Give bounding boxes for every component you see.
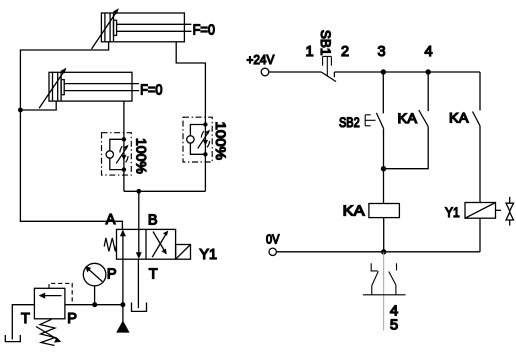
terminal 0V bbox=[269, 248, 276, 255]
junction node SB2/KA1 bbox=[381, 166, 386, 171]
contact map baseline bbox=[363, 294, 406, 296]
relay coil KA bbox=[369, 204, 400, 218]
cylinder CYL1 (top, with adjustable cushioning) bbox=[92, 8, 192, 49]
wire valve P port down to pump node bbox=[122, 259, 124, 305]
solenoid coil Y1 bbox=[465, 203, 496, 219]
junction node at pump column bbox=[120, 302, 125, 307]
svg-text:F=0: F=0 bbox=[193, 22, 215, 38]
wire manifold joining FC1, FC2 outputs to valve port B bbox=[124, 190, 205, 192]
svg-text:100%: 100% bbox=[213, 122, 229, 161]
svg-text:KA: KA bbox=[398, 111, 418, 126]
wire relay coil to 0V rail bbox=[383, 218, 385, 252]
svg-text:SB2: SB2 bbox=[339, 115, 360, 130]
svg-text:0V: 0V bbox=[266, 232, 280, 247]
contact map: NC contact symbol bbox=[371, 263, 378, 294]
svg-text:3: 3 bbox=[377, 44, 385, 60]
wire junction to relay coil bbox=[383, 169, 385, 204]
wire CYL1 cap port to left rail and down to valve port A bbox=[20, 42, 122, 230]
flow control valve FC1 (left, one-way throttle) bbox=[102, 133, 132, 175]
wire +24V rail (right of SB1) bbox=[334, 71, 480, 73]
wire +24V rail (left of SB1) bbox=[269, 71, 321, 73]
wire CYL2 cap port to left rail bbox=[20, 101, 56, 110]
directional valve DV1 (4/2 solenoid, spring return) bbox=[104, 229, 190, 259]
terminal +24V bbox=[261, 68, 269, 76]
junction node at gauge stem bbox=[92, 302, 97, 307]
pressure line manifold (relief valve to pump node) bbox=[65, 304, 123, 306]
tank under valve T bbox=[132, 303, 147, 312]
flow control valve FC2 (right, one-way throttle) bbox=[183, 117, 212, 162]
svg-text:1: 1 bbox=[305, 44, 313, 60]
relief valve RV1 bbox=[34, 283, 72, 345]
svg-text:+24V: +24V bbox=[247, 52, 275, 67]
svg-text:Y1: Y1 bbox=[199, 247, 217, 263]
pushbutton SB1 (NC) bbox=[321, 56, 336, 81]
svg-text:T: T bbox=[149, 267, 158, 283]
svg-text:P: P bbox=[67, 311, 77, 327]
wire 0V rail bbox=[276, 251, 480, 253]
wire valve port B drop bbox=[138, 191, 140, 230]
solenoid valve cross-reference symbol right of Y1 bbox=[496, 197, 514, 226]
svg-text:5: 5 bbox=[390, 317, 398, 334]
svg-text:P: P bbox=[107, 267, 117, 283]
svg-text:Y1: Y1 bbox=[445, 205, 460, 220]
svg-text:SB1: SB1 bbox=[318, 30, 333, 56]
contact KA1 (NO, self-holding) with leads bbox=[384, 72, 429, 169]
wire CYL2 rod port down through flow control FC1 to manifold bbox=[123, 101, 125, 191]
junction node on 0V rail bbox=[381, 249, 386, 254]
svg-text:2: 2 bbox=[341, 44, 349, 60]
svg-text:F=0: F=0 bbox=[140, 82, 162, 98]
junction node on left rail bbox=[18, 108, 23, 113]
wire valve T port down to tank bbox=[137, 259, 139, 308]
pressure gauge bbox=[83, 263, 106, 304]
tank at relief valve bbox=[5, 335, 20, 342]
svg-text:100%: 100% bbox=[134, 138, 150, 174]
wire CYL1 rod port down/right into flow control FC2 and on to manifold bbox=[176, 42, 205, 192]
relay KA contact map reference line bbox=[383, 252, 385, 331]
pushbutton SB2 (NO) with leads bbox=[365, 72, 383, 169]
wire Y1 coil to 0V rail bbox=[479, 218, 481, 252]
pressure source (pump) triangle bbox=[116, 305, 129, 333]
svg-text:B: B bbox=[148, 213, 158, 229]
svg-text:KA: KA bbox=[343, 204, 365, 220]
svg-text:A: A bbox=[106, 212, 116, 228]
svg-text:KA: KA bbox=[449, 111, 469, 126]
wire relief valve T to tank bbox=[12, 305, 34, 340]
svg-text:4: 4 bbox=[424, 44, 432, 60]
contact map: NO contact symbol bbox=[389, 263, 397, 294]
cylinder CYL2 (with adjustable cushioning) bbox=[39, 68, 139, 109]
junction node B manifold bbox=[136, 189, 141, 194]
junction node rail col4 bbox=[426, 69, 431, 74]
junction node rail col3 bbox=[381, 69, 386, 74]
contact KA2 (NO, to Y1) with leads bbox=[473, 72, 481, 203]
svg-text:T: T bbox=[21, 311, 30, 327]
